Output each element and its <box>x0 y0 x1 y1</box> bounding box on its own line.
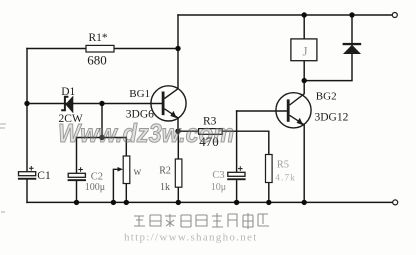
wire J to diode D2 <box>304 15 352 81</box>
wire W wiper <box>113 169 118 202</box>
svg-text:Www.dz3w.com: Www.dz3w.com <box>58 118 234 148</box>
wire BG2 base row <box>237 110 287 112</box>
node left-zener junction <box>24 101 29 106</box>
svg-text:10μ: 10μ <box>211 182 226 193</box>
relay J box <box>291 39 317 61</box>
label R2 <box>159 166 171 177</box>
wire C2-W row <box>77 137 127 139</box>
node C2 bottom junction <box>74 200 79 205</box>
svg-text:C2: C2 <box>91 172 103 183</box>
node wiper bottom junction <box>111 200 116 205</box>
wire top rail <box>178 14 392 16</box>
svg-text:W: W <box>134 168 142 177</box>
node zener-down junction <box>99 101 104 106</box>
label D1 <box>61 86 75 98</box>
svg-text:R1*: R1* <box>89 32 108 44</box>
capacitor C3 <box>227 166 245 180</box>
left edge scan specks <box>0 124 6 212</box>
node C2-row junction <box>99 135 104 140</box>
label 3DG6 <box>126 108 154 120</box>
wire R5 bottom <box>268 183 270 203</box>
wire BG1 emitter down <box>177 118 179 131</box>
wire BG1 collector up <box>177 49 179 89</box>
diode D2 freewheel <box>343 43 362 54</box>
label 100u <box>85 182 105 193</box>
svg-text:100μ: 100μ <box>85 182 105 193</box>
node R5 bottom junction <box>266 200 271 205</box>
wire C2 branch <box>76 138 78 203</box>
zener diode D1 <box>61 97 73 113</box>
transistor BG2 <box>276 93 311 128</box>
label W <box>134 168 142 177</box>
svg-text:D1: D1 <box>61 86 75 98</box>
node R2 bottom junction <box>176 200 181 205</box>
node top rail D2 junction <box>349 12 354 17</box>
resistor R2 <box>175 159 182 187</box>
label 2CW <box>59 113 83 125</box>
capacitor C1 <box>18 166 36 180</box>
node W bottom junction <box>124 200 129 205</box>
svg-text:J: J <box>303 44 308 59</box>
node C3 bottom junction <box>234 200 239 205</box>
svg-text:BG1: BG1 <box>129 88 150 100</box>
svg-text:R5: R5 <box>277 159 289 170</box>
wire top-left R1 row <box>27 48 178 50</box>
label 4.7k <box>275 174 296 184</box>
svg-text:C1: C1 <box>37 170 51 182</box>
wire BG2 collector up <box>303 81 305 94</box>
label 1k <box>160 182 170 193</box>
node BG1 emitter junction <box>175 129 180 134</box>
wire left vertical bus <box>26 49 28 172</box>
potentiometer W wiper arrow <box>118 167 124 172</box>
label BG1 <box>129 88 150 100</box>
watermark www.dz3w.com <box>58 118 234 148</box>
wire left vertical below C1 <box>26 180 28 203</box>
label 10u <box>211 182 226 193</box>
label C1 <box>37 170 51 182</box>
potentiometer W body <box>123 156 130 184</box>
resistor R5 <box>266 155 273 183</box>
svg-text:http://www.shangho.net: http://www.shangho.net <box>124 232 258 244</box>
resistor R3 <box>199 129 223 135</box>
capacitor C2 <box>68 167 86 181</box>
wire bottom rail <box>27 201 393 203</box>
label BG2 <box>316 90 337 102</box>
label C2 <box>91 172 103 183</box>
label 470 <box>199 134 219 149</box>
svg-text:R2: R2 <box>159 166 171 177</box>
node BG2 emitter bottom junction <box>302 200 307 205</box>
svg-text:1k: 1k <box>160 182 170 193</box>
node R1-collector junction <box>175 46 180 51</box>
svg-text:680: 680 <box>87 53 107 68</box>
wire W branch <box>125 138 127 203</box>
wire C3 vertical <box>236 111 238 202</box>
transistor BG1 <box>151 86 186 121</box>
caption url line <box>124 232 258 244</box>
label R1* <box>89 32 108 44</box>
label R3 <box>203 115 217 127</box>
svg-text:BG2: BG2 <box>316 90 337 102</box>
label 680 <box>87 53 107 68</box>
wire R3 right to R5 <box>222 131 269 154</box>
label 3DG12 <box>315 111 349 123</box>
label C3 <box>212 170 224 181</box>
terminal bottom right <box>393 200 398 205</box>
wire R2 branch <box>177 131 179 202</box>
svg-text:3DG12: 3DG12 <box>315 111 349 123</box>
wire top rail left drop <box>177 15 179 49</box>
wire R3 left <box>178 130 199 132</box>
svg-text:4.7k: 4.7k <box>275 174 296 184</box>
node J-D2-collector junction <box>302 78 307 83</box>
label R5 <box>277 159 289 170</box>
node top rail J junction <box>302 12 307 17</box>
wire zener node down <box>101 104 103 138</box>
resistor R1 <box>86 45 114 52</box>
wire BG2 emitter down <box>303 125 305 203</box>
wire relay J branch <box>303 15 305 81</box>
caption Chinese characters (pseudo-glyphs) <box>134 213 269 229</box>
terminal top right <box>392 13 397 18</box>
wire D1 base row <box>27 103 162 105</box>
svg-text:C3: C3 <box>212 170 224 181</box>
